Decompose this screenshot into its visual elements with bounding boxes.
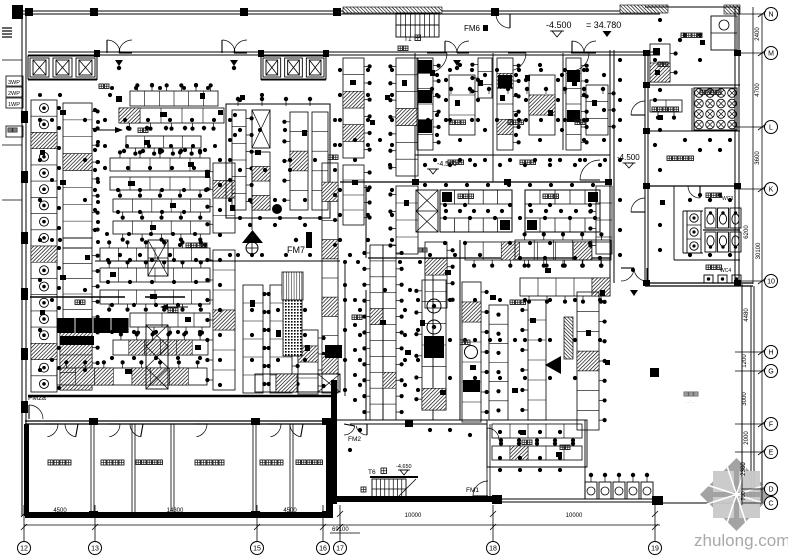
- crosshatch strip: [564, 317, 573, 359]
- equipment run: midleft row 3: [113, 199, 210, 212]
- svg-text:2400: 2400: [755, 27, 761, 41]
- svg-text:700: 700: [741, 491, 747, 500]
- room label: shiti: [658, 62, 663, 67]
- equipment run: midleft row 4: [113, 221, 210, 234]
- svg-text:10: 10: [767, 279, 775, 286]
- drain dots row top corridor: [430, 87, 434, 91]
- wall: kitchen bottom (left block): [28, 395, 333, 397]
- svg-text:F: F: [769, 422, 773, 429]
- equipment run: center vertical 5: [298, 330, 318, 394]
- door: main block to corridor: [580, 160, 600, 180]
- door: room2 entry: [513, 53, 526, 70]
- equipment: left column fill gap: [63, 238, 92, 248]
- grid bubbles bottom: [23, 505, 25, 542]
- wall: top hatched segment: [343, 7, 442, 13]
- column marks on lobby wall: [94, 50, 100, 57]
- equipment: top-right room 2 island: [529, 75, 555, 135]
- svg-text:2300: 2300: [741, 462, 747, 476]
- stair T1: [396, 13, 439, 37]
- column: left wall: [21, 111, 28, 123]
- room label: misc labels kitchen: [138, 128, 143, 133]
- door FM6: [496, 14, 510, 28]
- stair arrow T1: [396, 24, 439, 26]
- svg-text:D: D: [768, 487, 773, 494]
- wall: right wing bottom y283: [645, 282, 753, 284]
- room: center upper (pastry): [226, 104, 330, 218]
- svg-text:FM1: FM1: [466, 487, 479, 494]
- equipment: X-cell tall box lower: [146, 325, 168, 389]
- dark pot sink blob: [272, 204, 282, 214]
- equipment run: topleft row 1: [130, 91, 218, 106]
- equipment run: left column 2 upper: [63, 103, 92, 238]
- dish wash island 2: [525, 190, 600, 232]
- equipment: pastry col 2 X-top: [252, 110, 270, 148]
- equipment: X-cell tall box upper: [148, 240, 168, 276]
- door: double door to dining: [621, 268, 634, 281]
- wall: dining right exterior: [750, 286, 752, 505]
- equipment run: x320 tall diag: [322, 163, 338, 393]
- grid line: right outer vertical: [752, 7, 754, 284]
- wall: right wing left x647: [644, 53, 646, 283]
- equipment: pastry col 4: [312, 112, 328, 210]
- wall: lobby side right: [260, 53, 262, 80]
- svg-text:15: 15: [253, 546, 261, 553]
- equipment: room row above locker band: [255, 374, 340, 392]
- equipment run: lowleft row 5: [57, 368, 207, 385]
- svg-text:10000: 10000: [405, 513, 422, 519]
- svg-text:3600: 3600: [755, 151, 761, 165]
- door: wc3 door: [688, 186, 700, 198]
- equipment run: centerright strip mid: [343, 165, 364, 225]
- wall: lower rooms y420 horizontal: [337, 419, 487, 421]
- lower-right block top row 2: [520, 278, 610, 296]
- svg-text:-4.500: -4.500: [546, 20, 572, 30]
- equipment run: x398 mid: [396, 186, 418, 254]
- equipment: black box right of speckle: [325, 345, 342, 358]
- equipment run: lowleft row 3: [130, 313, 210, 327]
- svg-text:1200: 1200: [742, 354, 748, 368]
- wall: center horizontal y261 left: [95, 260, 340, 262]
- dish wash lower-left vertical cells: [425, 242, 447, 308]
- svg-text:G: G: [768, 369, 773, 376]
- column marks on band wall: [412, 179, 419, 185]
- WP label boxes left: [6, 76, 23, 86]
- wing: stall center wall: [703, 229, 740, 231]
- wall: locker band left thick: [24, 424, 29, 516]
- equipment: pastry col 1: [232, 110, 246, 210]
- svg-text:4500: 4500: [53, 508, 67, 514]
- room label: dining: [684, 392, 688, 396]
- svg-text:3000: 3000: [742, 392, 748, 406]
- elevator bank left: [28, 56, 97, 79]
- equipment run: midleft row 1: [110, 158, 210, 171]
- svg-text:12: 12: [20, 546, 28, 553]
- wing: vestibule wall: [682, 211, 684, 253]
- wall: wing divider y186: [645, 185, 740, 187]
- columns: wing wall junctions: [643, 50, 650, 56]
- wall: elevator bank bottoms: [28, 79, 97, 81]
- grid bubbles right edge: [735, 13, 764, 15]
- equipment run: topleft row 3: [126, 136, 201, 148]
- wall: top-right rooms horizontal y155: [415, 154, 610, 156]
- svg-text:-4.650: -4.650: [396, 464, 412, 470]
- svg-text:T6: T6: [368, 469, 376, 476]
- svg-text:14300: 14300: [167, 508, 184, 514]
- wall: corridor top y424: [350, 423, 487, 425]
- svg-text:H: H: [768, 350, 773, 357]
- wall: mid vertical thick x333: [331, 380, 337, 504]
- dots near FM7: [294, 238, 298, 242]
- wall: vertical x368 center: [365, 185, 367, 258]
- equipment run: lowleft hatched row: [113, 340, 208, 355]
- equipment: right edge column lower: [596, 186, 612, 254]
- svg-text:6200: 6200: [744, 225, 750, 239]
- equipment run: left column 2 lower: [63, 248, 92, 386]
- svg-text:FM7: FM7: [287, 245, 305, 255]
- door: wing left wall lower: [631, 198, 645, 212]
- svg-text:FM2: FM2: [348, 436, 361, 443]
- svg-text:2WP: 2WP: [8, 91, 20, 97]
- equipment run: center vertical 1: [213, 163, 235, 233]
- watermark: zhulong pinwheel logo: [700, 458, 773, 531]
- equipment: pastry col 3: [290, 112, 308, 210]
- equipment: top-right room 1 right cells: [478, 58, 492, 98]
- svg-text:1WP: 1WP: [8, 102, 20, 108]
- svg-text:zhulong.com: zhulong.com: [694, 531, 788, 550]
- equipment run: center vertical 4: [270, 285, 292, 393]
- door: double door top right: [572, 41, 584, 53]
- dish wash lower row: [465, 242, 610, 260]
- svg-text:T1: T1: [404, 36, 412, 43]
- dots above pastry room: [236, 97, 240, 101]
- wall: lobby side left: [96, 53, 98, 80]
- locker rooms columns: [89, 418, 98, 425]
- wall: vertical x368 lower: [365, 290, 367, 420]
- equipment run: lower center strip 2: [383, 245, 396, 420]
- floor drain dots scattered: [108, 93, 112, 97]
- equipment run: lowleft row 1: [100, 268, 210, 282]
- equipment: top-right room 2 wall strip: [497, 58, 513, 150]
- equipment: top-right room 3 island: [586, 85, 608, 135]
- room label: WC3: [706, 193, 711, 198]
- hood symbol FM7: [242, 230, 263, 243]
- wall: dining bottom thin: [660, 502, 751, 504]
- wing: toilet stalls row upper: [705, 208, 716, 228]
- svg-text:E: E: [769, 450, 774, 457]
- locker rooms dividers: [90, 424, 92, 512]
- door: wing left wall upper: [631, 101, 645, 115]
- svg-text:WC4: WC4: [720, 268, 731, 274]
- wing: small cells below divider: [650, 100, 682, 112]
- grid ticks right: [758, 11, 766, 17]
- wall: wing divider y85: [645, 84, 740, 86]
- room label: cold room: [450, 120, 455, 125]
- svg-text:3WP: 3WP: [8, 80, 20, 86]
- svg-text:M: M: [768, 51, 774, 58]
- wall: top-right rooms verticals: [492, 53, 494, 182]
- svg-text:= 34.780: = 34.780: [586, 20, 621, 30]
- equipment run: topleft row 2: [119, 108, 224, 123]
- elevator bank right: [261, 56, 326, 79]
- wall: bottom exterior center thick: [333, 496, 498, 502]
- washbasin row bottom: [585, 482, 597, 499]
- wall: wing divider y131: [645, 130, 740, 132]
- svg-text:19: 19: [651, 546, 659, 553]
- wall: lower-right block walls: [432, 258, 434, 420]
- svg-text:69100: 69100: [332, 527, 349, 533]
- wall: locker band right thick: [326, 421, 333, 518]
- equipment: dark speckle block: [283, 300, 302, 356]
- equipment: top-right room 3 wall strip: [566, 58, 581, 150]
- svg-text:FM2a: FM2a: [28, 395, 46, 402]
- sprinkle dots dense zones extra: [110, 86, 114, 90]
- wing: washbasin column WC: [687, 211, 701, 253]
- room label: jiushui rack: [700, 90, 705, 95]
- wall: prep room box: [487, 420, 587, 467]
- stair T6: [372, 479, 406, 499]
- door arrow top center: [453, 60, 461, 66]
- room label: xiahuopingtai: [681, 33, 686, 38]
- equipment: top-right room 1 wall strip: [417, 58, 433, 150]
- equipment run: x398 top: [396, 58, 418, 176]
- equipment: vertical stripe block: [282, 272, 303, 300]
- wall: interior horizontal below elevator lobby: [28, 51, 660, 53]
- column: bottom wall x493: [492, 495, 502, 504]
- wall: dish band bottom y258: [368, 257, 610, 259]
- grid line: right inner lower: [741, 284, 743, 505]
- dish wash: X cells left: [416, 190, 438, 232]
- wall: wing inner vertical x674: [673, 186, 675, 260]
- door: prep room door: [487, 428, 499, 440]
- wall: locker band top: [25, 420, 331, 422]
- equipment run: lower center strip 1: [370, 245, 383, 420]
- wall: top exterior: [23, 10, 660, 12]
- door: double door lobby left: [107, 40, 120, 53]
- wall: bottom thin edge to dining: [498, 498, 660, 500]
- washbasin counter line: [583, 498, 655, 500]
- door: double door top center: [445, 41, 457, 53]
- wall: top hatched segment right: [620, 5, 668, 13]
- arrow: direction left area: [95, 129, 115, 131]
- wing: top room fixtures: [711, 16, 737, 50]
- wall: right wing right exterior: [734, 7, 736, 285]
- drain dot column x59: [57, 106, 61, 110]
- wall: vertical x585 to bottom: [584, 420, 586, 499]
- equipment: top-right room 1 island: [449, 75, 475, 135]
- door arrow lobby left: [115, 60, 123, 66]
- svg-text:. . : .: . . : .: [685, 399, 694, 404]
- column: bottom wall x653: [652, 496, 663, 505]
- room label: zhu caozuo jian: [186, 243, 191, 248]
- equipment run: centerright strip top: [343, 58, 364, 158]
- counter: dark filled row y318: [57, 318, 129, 333]
- small dark equipment rects scattered: [116, 96, 122, 102]
- column: stair room top wall: [405, 420, 413, 427]
- equipment run: lowleft row 2: [100, 290, 210, 304]
- extra drain dots dense zones: [435, 73, 439, 77]
- svg-text:K: K: [769, 187, 774, 194]
- door: double door lobby right: [222, 40, 235, 53]
- svg-text:2000: 2000: [744, 431, 750, 445]
- equipment run: center vertical 3: [243, 285, 263, 393]
- wall: right wing top: [645, 6, 740, 8]
- corner block top-left: [12, 5, 23, 19]
- cook line: center table: [489, 305, 508, 420]
- wall: vertical x415 top rooms: [414, 53, 416, 182]
- wall: vertical x345 center-lower: [344, 261, 346, 396]
- door arrow lobby right: [230, 60, 238, 66]
- grid line: bottom dim line 1: [24, 524, 660, 526]
- column: dining area: [650, 368, 659, 377]
- svg-text:30100: 30100: [756, 242, 762, 259]
- svg-text:C: C: [768, 501, 773, 508]
- svg-text:4480: 4480: [744, 308, 750, 322]
- grid bubbles over watermark: [742, 488, 764, 490]
- room label: top corridor: [398, 46, 403, 51]
- svg-text:4700: 4700: [755, 83, 761, 97]
- wall: wing inner vertical x692: [691, 88, 693, 131]
- door: room3 entry: [576, 53, 589, 70]
- wall: vertical x460 cook line: [459, 240, 461, 420]
- label: elevator hall: [99, 84, 104, 89]
- svg-text:L: L: [769, 125, 773, 132]
- svg-text:N: N: [768, 12, 773, 19]
- wall: top-right corner hatched block: [724, 5, 740, 14]
- locker room doors: [47, 424, 58, 437]
- wing: toilet stalls row lower: [705, 232, 716, 252]
- cook line: table 2: [528, 300, 546, 420]
- lower-right block top row 1: [515, 240, 611, 260]
- svg-text:4500: 4500: [283, 508, 297, 514]
- column: top wall: [25, 8, 33, 16]
- wing: wine rack grid: [694, 88, 737, 130]
- svg-text:16: 16: [319, 546, 327, 553]
- svg-text:10000: 10000: [566, 513, 583, 519]
- left wall stub lines: [2, 59, 22, 61]
- wall: dish band top y182: [340, 181, 610, 183]
- equipment run: left wall column: [31, 100, 57, 392]
- wall: room wall y467 under prep: [487, 466, 587, 468]
- wing: urinals WC4: [704, 275, 713, 283]
- cook line: stove column: [462, 282, 481, 422]
- equipment run: midleft row 2: [110, 177, 210, 190]
- svg-text:FM6: FM6: [464, 24, 481, 33]
- wall: corridor y297 left: [30, 296, 125, 298]
- room label: xiaojian store: [652, 107, 657, 112]
- svg-text:13: 13: [91, 546, 99, 553]
- wall: wing divider y260: [674, 259, 740, 261]
- wall: locker band bottom thick: [25, 512, 333, 518]
- grid line: bottom dim line segment right: [330, 532, 360, 534]
- grid ticks bottom: [21, 511, 27, 517]
- equipment run: left column 2 bottom dark: [60, 320, 92, 390]
- equipment run: center vertical 2: [213, 250, 235, 390]
- equipment run: lowleft row 0: [100, 248, 210, 261]
- svg-text:18: 18: [489, 546, 497, 553]
- door: room1 entry: [432, 53, 447, 72]
- svg-text:17: 17: [336, 546, 344, 553]
- locker room labels: [48, 460, 53, 465]
- wall: left exterior: [21, 11, 23, 516]
- room label: huowu elevator hall: [667, 156, 672, 161]
- big left arrow cook area: [545, 356, 561, 374]
- dot rows between counters topleft: [126, 126, 130, 130]
- cook line: wok column with burners: [422, 280, 446, 410]
- wall: vertical x488 stair room right: [486, 424, 488, 497]
- dish wash dots above: [423, 183, 427, 187]
- arrow: pass-through direction: [168, 306, 188, 308]
- prep room equipment: [492, 424, 582, 438]
- cook line: right column: [577, 292, 599, 430]
- dish wash island 1: [440, 190, 512, 232]
- wall: main block right x612: [609, 50, 611, 283]
- room label: WC4: [706, 265, 711, 270]
- wing: dumbwaiter and sink: [650, 44, 670, 82]
